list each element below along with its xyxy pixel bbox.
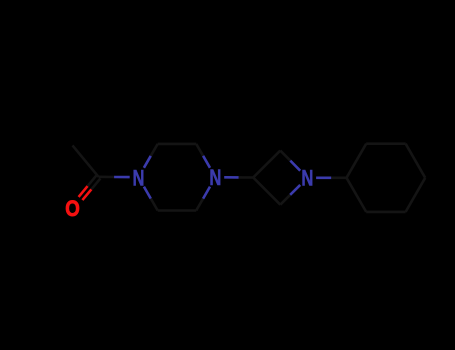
svg-text:N: N: [301, 166, 313, 191]
svg-text:N: N: [209, 166, 221, 191]
svg-text:N: N: [133, 166, 145, 191]
svg-text:O: O: [65, 198, 80, 222]
